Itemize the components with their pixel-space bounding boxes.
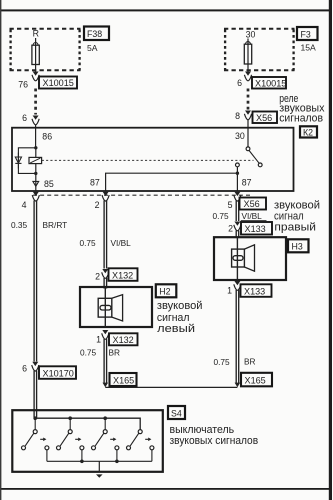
svg-text:30: 30 [246, 30, 256, 40]
wire label VI/BL right [241, 211, 267, 221]
wire label 0.35 [11, 220, 28, 230]
pin 85 label [44, 179, 54, 189]
svg-text:X56: X56 [244, 199, 260, 209]
wire pin86 to coil [35, 128, 37, 148]
wire 87 branch horizontal [106, 173, 238, 191]
svg-text:85: 85 [44, 179, 54, 189]
svg-text:звуковых сигналов: звуковых сигналов [170, 435, 259, 447]
wire end arrow left X165 [103, 383, 109, 388]
connector crossing X132 top [102, 269, 109, 278]
pin 8 label [235, 111, 240, 121]
connector X56 mid box [240, 198, 267, 210]
horn H2 symbol [98, 288, 122, 327]
ground symbol [96, 474, 103, 477]
node coil bottom junction [34, 172, 37, 175]
connector crossing X132 bottom [102, 330, 109, 339]
svg-text:VI/BL: VI/BL [111, 238, 132, 248]
svg-text:76: 76 [18, 80, 28, 90]
text: right horn [274, 199, 320, 233]
wire label VI/BL left [111, 238, 132, 248]
pin 2 label [95, 200, 100, 210]
pin 87 label left [90, 177, 100, 187]
ground stub wire [98, 461, 100, 472]
horn H3 symbol [232, 238, 255, 281]
pin 5 label [228, 200, 233, 210]
pin 1 label X133 [227, 286, 232, 296]
H2 designator box [156, 284, 177, 297]
connector crossing X133 bottom [234, 281, 241, 290]
fuse F38 label R [33, 29, 39, 39]
wire label BR/RT [43, 220, 68, 230]
svg-text:X10015: X10015 [255, 78, 286, 88]
connector X133 top box [241, 222, 272, 235]
svg-text:86: 86 [42, 131, 52, 141]
svg-text:2: 2 [228, 224, 233, 234]
connector X10170 box [39, 366, 76, 379]
wire label 0.75 left [80, 238, 97, 248]
svg-text:6: 6 [22, 364, 27, 374]
pin 76 label [18, 80, 28, 90]
svg-text:1: 1 [227, 286, 232, 296]
node 87 junction [236, 172, 239, 175]
svg-text:0.75: 0.75 [80, 238, 97, 248]
svg-text:К2: К2 [303, 128, 313, 138]
svg-text:87: 87 [242, 177, 252, 187]
node bus S1 [33, 416, 37, 420]
horn H3 box [214, 237, 286, 280]
fuse F3 label 30 [246, 30, 256, 40]
wire dashed from X10015 right to X56 [247, 89, 250, 110]
node bottom bus S3 [115, 460, 119, 464]
svg-text:VI/BL: VI/BL [242, 211, 263, 221]
svg-text:0.75: 0.75 [213, 211, 230, 221]
svg-text:6: 6 [237, 78, 242, 88]
switch top bus [35, 418, 140, 429]
wire VI/BL left (pin2 down to X132) [104, 201, 107, 289]
svg-text:F38: F38 [87, 29, 102, 39]
svg-text:X10015: X10015 [43, 78, 74, 88]
svg-text:87: 87 [90, 177, 100, 187]
connector crossing relay pin 6 [32, 116, 39, 129]
svg-text:30: 30 [235, 131, 245, 141]
wire label 0.75 left lower [80, 347, 97, 357]
pin 6 label (fuse F3 side) [237, 78, 242, 88]
text: horn switch [170, 424, 259, 447]
node bus S2 [68, 416, 72, 420]
connector crossing X10015 left (pin symbol) [32, 72, 39, 81]
relay socket dashed line [33, 194, 250, 196]
wire BR/RT (pin4 down to X10170) [34, 201, 37, 362]
svg-text:0.35: 0.35 [11, 220, 28, 230]
svg-text:15A: 15A [301, 43, 317, 53]
switch S4b [57, 418, 84, 461]
pin 86 label [42, 131, 52, 141]
connector X56 top box [253, 112, 278, 124]
svg-text:X133: X133 [244, 286, 265, 296]
svg-text:0.75: 0.75 [80, 347, 97, 357]
relay switch contact B [258, 163, 262, 167]
wire VI/BL right (pin5 down to X133) [236, 201, 239, 222]
node bus S3 [103, 416, 107, 420]
pin 6 label (relay) [22, 113, 27, 123]
svg-text:R: R [33, 29, 39, 39]
relay switch contact A [246, 147, 250, 151]
relay K2 enclosure [12, 128, 294, 191]
connector X10015 right box [252, 77, 286, 89]
svg-text:левый: левый [157, 323, 195, 335]
horn H2 box [80, 287, 152, 327]
svg-text:F3: F3 [301, 29, 311, 39]
svg-text:X165: X165 [113, 376, 134, 386]
relay switch arm [249, 150, 259, 163]
fuse F3 element [244, 39, 251, 72]
connector crossing X133 top [234, 222, 241, 239]
wire label 0.75 right [213, 211, 230, 221]
pin 6 label X10170 [22, 364, 27, 374]
svg-text:правый: правый [274, 222, 316, 234]
ground bus wire [105, 386, 237, 388]
horn switch S4 box [12, 410, 163, 472]
connector crossing X56 top [244, 111, 251, 129]
svg-text:5: 5 [228, 200, 233, 210]
wire dashed from X10015 to relay pin 6 [34, 89, 37, 115]
wire BR left (X132 down to X165) [104, 339, 107, 383]
svg-text:2: 2 [95, 272, 100, 282]
text: left horn [157, 300, 203, 335]
connector crossing relay pin 5 [234, 192, 241, 201]
node coil top junction [34, 146, 37, 149]
svg-text:X10170: X10170 [43, 368, 74, 378]
connector crossing relay pin 2 [102, 192, 109, 201]
F38 designator box [84, 27, 109, 41]
S4 designator box [168, 406, 185, 419]
connector crossing X10170 [32, 362, 39, 371]
pin 30 label [235, 131, 245, 141]
switch bottom bus [47, 460, 152, 462]
text: relay of horns [279, 93, 325, 125]
pin 85 arrow [33, 173, 39, 190]
svg-text:8: 8 [235, 111, 240, 121]
svg-text:0.75: 0.75 [214, 357, 231, 367]
F3 rating 15A [301, 43, 317, 53]
relay switch contact C (87) [236, 163, 240, 167]
connector X132 top box [109, 268, 138, 281]
svg-text:X132: X132 [112, 270, 133, 280]
svg-text:сигнал: сигнал [274, 210, 304, 222]
pin 87 label right [242, 177, 252, 187]
wire label BR left [109, 347, 121, 357]
svg-text:X56: X56 [256, 113, 272, 123]
connector X10015 left box [39, 77, 77, 89]
pin 4 label [22, 200, 27, 210]
svg-text:2: 2 [95, 200, 100, 210]
switch S4c [92, 418, 119, 461]
connector X165 right box [241, 373, 272, 387]
svg-text:1: 1 [96, 335, 101, 345]
fuse box F3 (dashed enclosure) [224, 29, 295, 71]
svg-text:звуковой: звуковой [157, 300, 203, 312]
svg-text:BR: BR [109, 347, 121, 357]
svg-text:Н2: Н2 [159, 287, 170, 297]
svg-text:сигналов: сигналов [279, 113, 323, 125]
pin 2 label X132 [95, 272, 100, 282]
wire end arrow right X165 [235, 383, 241, 388]
wire label BR right [244, 356, 256, 366]
svg-text:BR/RT: BR/RT [43, 220, 68, 230]
relay K2 designator box [300, 126, 317, 137]
svg-text:X133: X133 [245, 224, 266, 234]
connector crossing relay pin 4 [32, 192, 39, 201]
H3 designator box [288, 239, 309, 252]
fuse box F38 (dashed enclosure) [10, 29, 81, 71]
svg-text:X165: X165 [245, 376, 266, 386]
fuse F38 element [32, 38, 39, 72]
connector X165 left box [110, 373, 137, 386]
pin 2 label X133 [228, 224, 233, 234]
svg-text:BR: BR [244, 356, 256, 366]
svg-text:4: 4 [22, 200, 27, 210]
F3 designator box [297, 27, 318, 40]
wire pin30 to switch [247, 128, 249, 147]
switch S4a [22, 418, 49, 461]
wire BR right (X133 down to X165) [236, 290, 239, 383]
svg-text:6: 6 [22, 113, 27, 123]
svg-text:5A: 5A [87, 43, 98, 53]
mechanical link dashed line [42, 159, 254, 161]
wire X10170 into switch box [34, 371, 37, 418]
node bottom bus S2 [80, 460, 84, 464]
wire label 0.75 right lower [214, 357, 231, 367]
pin 1 label X132 [96, 335, 101, 345]
connector crossing X10015 right (pin symbol) [244, 72, 251, 81]
wire contact C down to junction [236, 167, 238, 191]
relay coil with diode branch [15, 148, 41, 174]
connector X132 bottom box [109, 333, 138, 345]
svg-text:Н3: Н3 [292, 242, 303, 252]
svg-text:X132: X132 [113, 335, 134, 345]
F38 rating 5A [87, 43, 98, 53]
switch S4d [127, 430, 154, 462]
svg-text:S4: S4 [171, 408, 182, 418]
connector X133 bottom box [241, 284, 272, 297]
